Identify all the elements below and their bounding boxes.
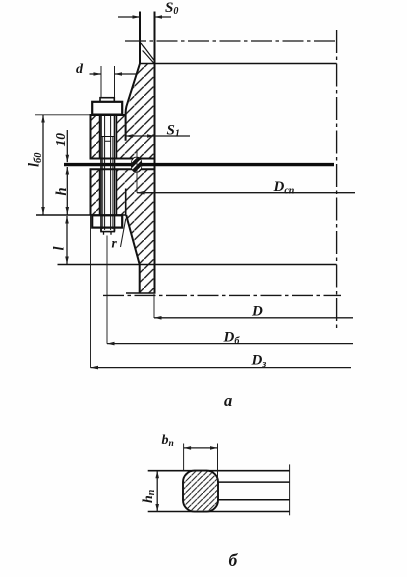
thread runout crossbar — [101, 137, 115, 142]
svg-text:r: r — [112, 236, 118, 251]
dimension bp (gasket width) — [184, 446, 218, 450]
lower flange hatch — [91, 169, 155, 264]
svg-text:D: D — [251, 304, 263, 320]
dimension Dz — [91, 366, 352, 370]
weld stub hatch (shell piece, opposite direction) — [141, 43, 154, 63]
upper flange bolt hole edges — [100, 115, 117, 159]
lower pipe stub hatch — [140, 265, 155, 294]
dimension D_sp (mean gasket diameter) — [137, 191, 355, 195]
lower pipe break end — [126, 292, 156, 294]
dimension h (flange thickness) — [66, 167, 70, 215]
lower tray line (also l-dimension extension) — [58, 264, 337, 266]
tray plate edge lines — [218, 482, 290, 500]
dimension d — [90, 72, 137, 76]
gasket centreline extension — [136, 150, 138, 193]
svg-text:б: б — [229, 550, 239, 570]
fillet label r with leader — [121, 219, 126, 248]
centerline dash-dot upper — [125, 40, 337, 42]
upper flange hatch — [91, 64, 155, 159]
D extension line — [153, 294, 155, 318]
dimension l (hub length) — [65, 216, 69, 264]
stud thread lines — [105, 116, 111, 230]
svg-text:10: 10 — [53, 133, 68, 147]
lower centerline dash-dot — [103, 294, 341, 296]
stud top nut — [92, 102, 122, 115]
svg-text:h: h — [54, 187, 70, 195]
gasket (section, black with white hatch stripes) — [130, 154, 144, 175]
collar edge line lower flange — [125, 189, 127, 216]
lower flange contour — [91, 169, 155, 215]
lower hub taper with fillet r — [126, 215, 139, 265]
dimension S1 — [126, 134, 190, 138]
dimension Db — [107, 342, 353, 346]
apparatus axis (vertical dash-dot) — [336, 30, 338, 331]
upper tray line — [140, 63, 337, 65]
upper hub taper — [126, 64, 140, 141]
flange face top line — [148, 470, 290, 472]
shell wall left (upper pipe, thickness S0) — [139, 12, 141, 64]
dimension hp (gasket height) — [155, 471, 159, 512]
break line right — [289, 464, 291, 515]
lower pipe wall left — [139, 265, 141, 294]
dimension l_b0 (stud length) — [41, 115, 45, 215]
extension line under stud head (left) — [35, 114, 91, 116]
dimension 10 (gap at tray) — [66, 130, 70, 162]
svg-text:а: а — [224, 391, 232, 410]
stud shank — [101, 115, 115, 232]
stud bottom end — [101, 228, 114, 232]
clamped mid tray (double thick line) — [64, 163, 334, 166]
dimension D (shell inner diameter) — [154, 316, 353, 320]
stud tip — [104, 232, 112, 235]
Db extension line (bolt circle) — [106, 236, 108, 344]
svg-text:l: l — [52, 246, 68, 250]
Dz extension line (flange outside) — [90, 216, 92, 368]
svg-text:d: d — [76, 62, 84, 77]
thread texture lines — [103, 137, 113, 229]
dimension S0 — [118, 15, 171, 19]
big gasket section — [183, 471, 218, 512]
upper flange contour — [91, 115, 155, 159]
stud bottom nut — [92, 215, 122, 227]
shell wall right (inner surface, runs through to lower pipe) — [154, 12, 156, 294]
flange face bottom line — [148, 511, 290, 513]
dimension d extension lines — [101, 66, 115, 97]
stud top protruding end — [100, 98, 114, 102]
lower flange bottom face + left extension line — [36, 214, 126, 216]
lower flange bolt hole edges — [100, 169, 117, 215]
bp extension lines — [184, 444, 218, 482]
